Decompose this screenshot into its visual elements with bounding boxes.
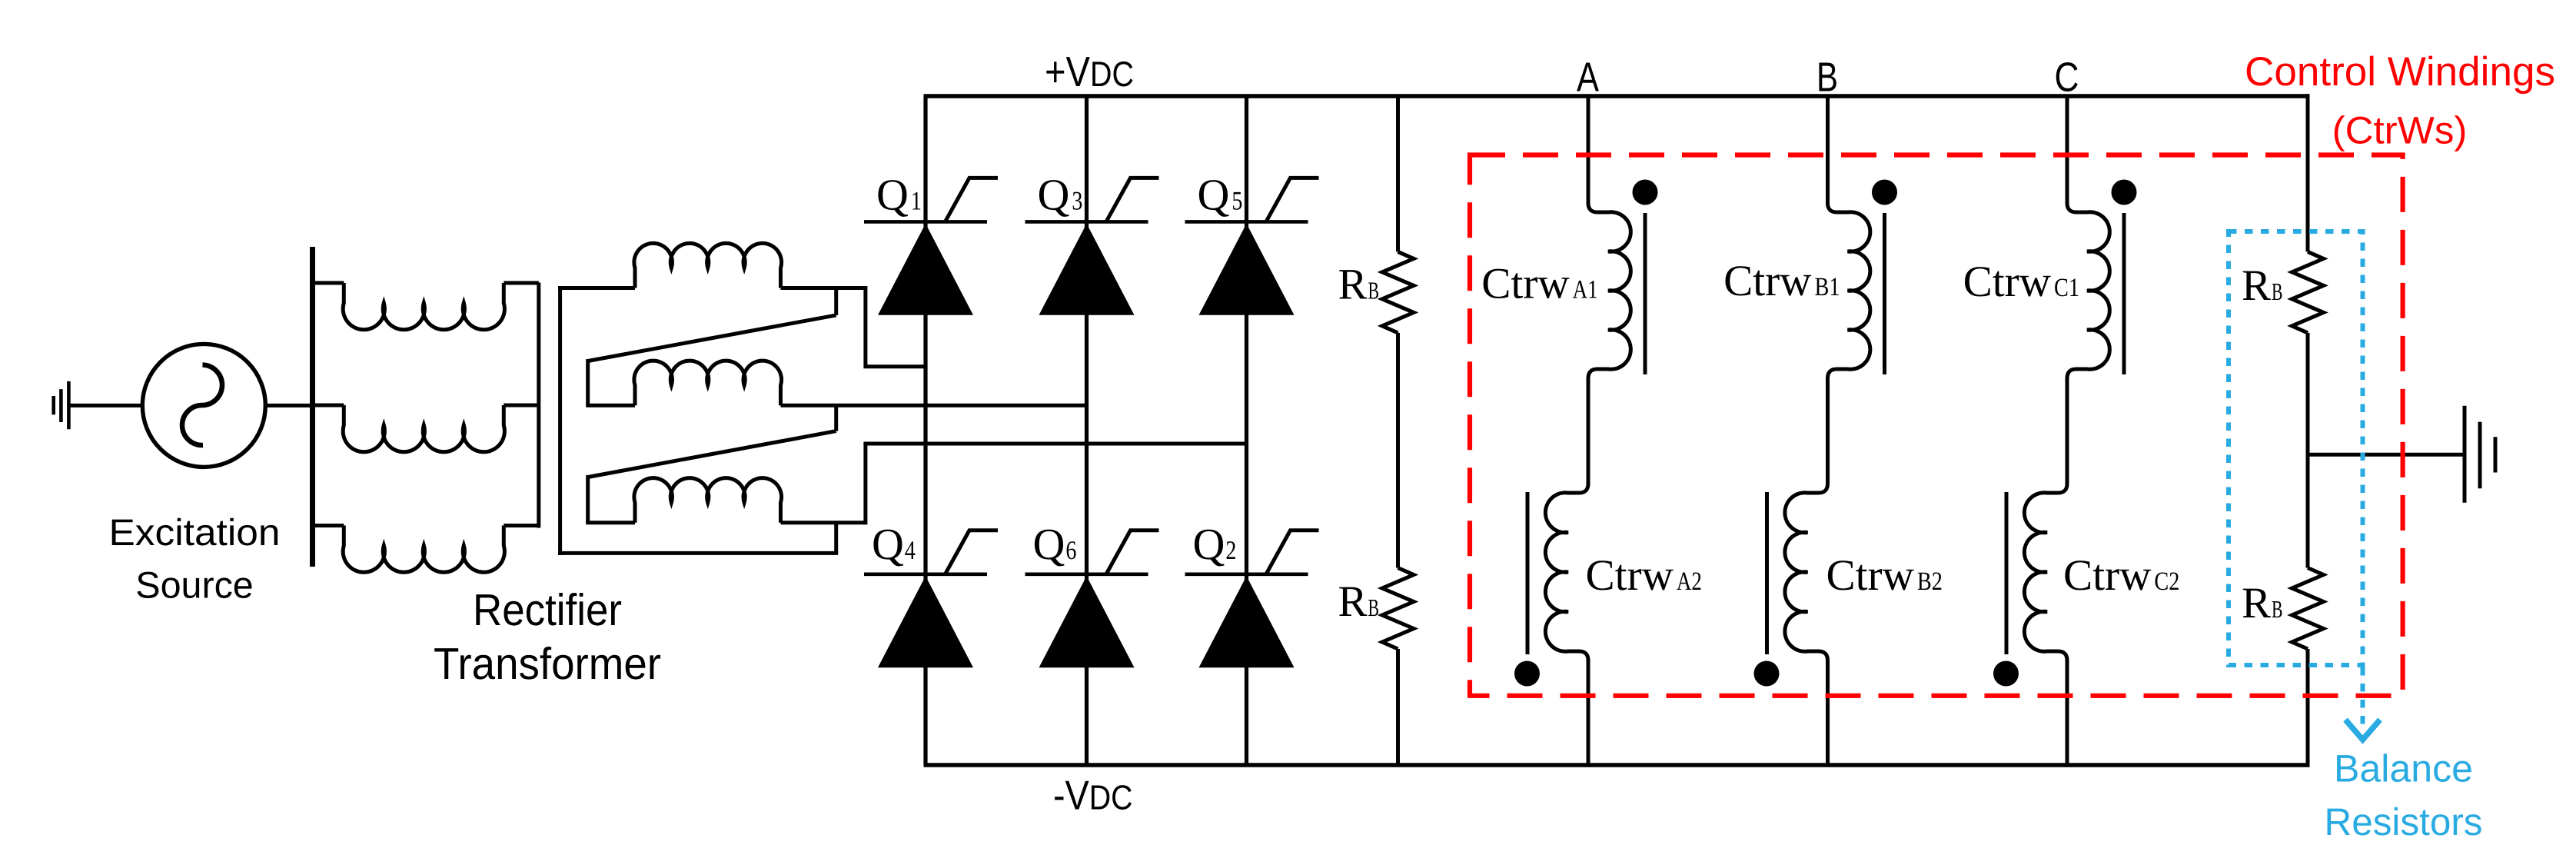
thyristor Q6 cathode bar: [1025, 572, 1148, 576]
winding CtrwA1 coil: [1588, 203, 1630, 378]
wire RB right branch bottom: [2306, 649, 2310, 765]
transformer secondary winding S1 wire: [558, 286, 635, 290]
transformer primary right rail: [537, 283, 540, 528]
transformer secondary winding S2 wire: [586, 404, 635, 408]
wire RB left branch bottom: [1396, 649, 1400, 765]
transformer primary winding P3 stub: [310, 524, 344, 527]
winding CtrwA2 coil: [1545, 484, 1588, 660]
AC source V1 circle: [142, 344, 265, 467]
winding CtrwC1 polarity dot: [2112, 180, 2137, 205]
resistor RB1: [1382, 251, 1414, 333]
thyristor Q5 cathode bar: [1185, 220, 1308, 224]
transformer primary winding P2 coil: [343, 405, 504, 452]
winding CtrwA2 polarity dot: [1514, 661, 1540, 687]
svg-text:B: B: [1816, 55, 1838, 101]
ground (balance point): [2463, 406, 2467, 503]
transformer secondary winding S3 out wire: [781, 521, 866, 524]
winding CtrwC1 core bar: [2122, 213, 2126, 374]
svg-text:A: A: [1577, 55, 1599, 101]
transformer primary winding P1 out wire: [504, 281, 539, 285]
thyristor Q5 gate: [1267, 178, 1319, 221]
thyristor Q1 cathode bar: [864, 220, 987, 224]
wire phase B upper: [1826, 96, 1830, 205]
thyristor Q1 anode triangle: [878, 224, 973, 315]
svg-text:+VDC: +VDC: [1045, 48, 1134, 95]
winding CtrwC2 core bar: [2005, 492, 2009, 654]
thyristor Q1 gate: [946, 178, 998, 221]
wire bridge leg 3: [1245, 96, 1248, 765]
blue arrow head: [2345, 720, 2380, 740]
wire phase C lower: [2066, 660, 2069, 766]
transformer primary winding P2 stub: [310, 404, 344, 408]
winding CtrwC2 polarity dot: [1993, 661, 2019, 687]
wire phase a tap vertical: [863, 286, 867, 367]
control windings red dashed box: [1470, 155, 2403, 696]
transformer secondary diagonal D2: [588, 431, 836, 477]
wire to right ground: [2308, 453, 2465, 457]
svg-text:Excitation: Excitation: [109, 512, 281, 554]
transformer secondary winding S3 coil: [634, 478, 782, 523]
thyristor Q3 anode triangle: [1039, 224, 1135, 315]
-VDC bus: [924, 763, 2310, 767]
wire phase A upper: [1587, 96, 1590, 205]
wire bridge leg 2: [1085, 96, 1089, 765]
transformer secondary winding S3 wire: [586, 521, 635, 524]
thyristor Q6 gate: [1107, 531, 1159, 574]
AC source V1 sine glyph: [182, 365, 222, 446]
wire phase b tap: [781, 404, 1087, 408]
winding CtrwB1 core bar: [1883, 213, 1886, 374]
winding CtrwB1 coil: [1828, 203, 1870, 378]
svg-text:-VDC: -VDC: [1053, 774, 1133, 819]
svg-text:Transformer: Transformer: [434, 639, 661, 689]
thyristor Q2 cathode bar: [1185, 572, 1308, 576]
thyristor Q5 anode triangle: [1199, 224, 1295, 315]
transformer secondary winding S1 coil: [634, 243, 782, 288]
winding CtrwA1 core bar: [1644, 213, 1647, 374]
svg-text:Control Windings: Control Windings: [2245, 49, 2555, 95]
svg-text:(CtrWs): (CtrWs): [2332, 109, 2468, 152]
resistor RB2: [1382, 568, 1414, 650]
transformer secondary left rail: [558, 286, 562, 555]
resistor RB4: [2292, 568, 2324, 650]
wire phase c tap horizontal: [863, 442, 1246, 446]
thyristor Q4 anode triangle: [878, 576, 973, 667]
svg-text:C: C: [2055, 55, 2079, 101]
wire RB left branch top: [1396, 96, 1400, 251]
wire S1 to diagonal D1: [834, 288, 838, 315]
winding CtrwC2 coil: [2024, 484, 2067, 660]
winding CtrwB2 core bar: [1765, 492, 1769, 654]
transformer primary winding P1 coil: [343, 283, 504, 330]
transformer primary winding P2 out wire: [504, 404, 539, 408]
wire RB right branch middle: [2306, 333, 2310, 568]
wire phase c tap vertical: [863, 444, 867, 524]
wire phase B middle: [1826, 378, 1830, 485]
transformer secondary bottom return wire: [558, 551, 838, 555]
thyristor Q3 cathode bar: [1025, 220, 1148, 224]
wire D1 to S2: [586, 359, 590, 405]
transformer secondary diagonal D1: [588, 315, 836, 361]
+VDC bus: [924, 94, 2310, 98]
transformer primary winding P3 coil: [343, 526, 504, 573]
svg-text:Source: Source: [135, 565, 254, 607]
thyristor Q4 cathode bar: [864, 572, 987, 576]
wire RB left branch middle: [1396, 333, 1400, 568]
thyristor Q6 anode triangle: [1039, 576, 1135, 667]
blue arrow stem: [2361, 667, 2365, 727]
wire RB right branch top: [2306, 94, 2310, 251]
wire phase C upper: [2066, 96, 2069, 205]
winding CtrwC1 coil: [2067, 203, 2109, 378]
svg-text:Resistors: Resistors: [2325, 800, 2483, 843]
wire ground to AC source: [68, 404, 142, 408]
winding CtrwB2 polarity dot: [1754, 661, 1780, 687]
wire phase A middle: [1587, 378, 1590, 485]
thyristor Q3 gate: [1107, 178, 1159, 221]
thyristor Q4 gate: [946, 531, 998, 574]
transformer secondary winding S1 out wire: [781, 286, 866, 290]
wire bridge leg 1: [923, 96, 927, 765]
wire S2 to diagonal D2: [834, 405, 838, 431]
balance resistors blue dotted box: [2229, 231, 2363, 665]
transformer primary winding P1 stub: [310, 281, 344, 285]
svg-text:Rectifier: Rectifier: [473, 585, 622, 635]
thyristor Q2 gate: [1267, 531, 1319, 574]
wire phase B lower: [1826, 660, 1830, 766]
transformer secondary winding S2 coil: [634, 361, 782, 405]
wire phase C middle: [2066, 378, 2069, 485]
wire D2 to S3: [586, 475, 590, 523]
wire phase a tap horizontal: [863, 364, 926, 368]
resistor RB3: [2292, 251, 2324, 333]
wire phase A lower: [1587, 660, 1590, 766]
wire S3 to bottom return: [834, 523, 838, 554]
winding CtrwB2 coil: [1785, 484, 1828, 660]
winding CtrwA2 core bar: [1526, 492, 1530, 654]
transformer primary winding P3 out wire: [504, 524, 539, 527]
svg-text:Balance: Balance: [2334, 747, 2473, 790]
winding CtrwA1 polarity dot: [1633, 180, 1658, 205]
excitation bus bar: [310, 247, 315, 567]
wire AC source to bus: [265, 404, 312, 408]
winding CtrwB1 polarity dot: [1872, 180, 1897, 205]
thyristor Q2 anode triangle: [1199, 576, 1295, 667]
ground (excitation source): [67, 381, 71, 429]
